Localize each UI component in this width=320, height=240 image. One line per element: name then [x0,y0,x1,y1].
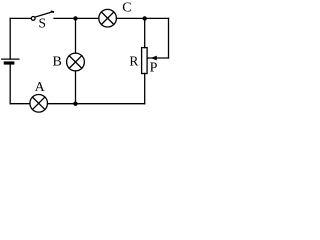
lamp A [30,95,48,113]
wire: bottom junction to bottom-right corner [76,103,145,105]
wire: bottom-left corner to lamp A [10,103,30,105]
node: top junction to lamp B branch [73,16,77,20]
wire: resistor bottom to bottom wire corner [144,74,146,104]
svg-text:S: S [38,16,46,31]
svg-text:C: C [122,1,131,16]
wiper P arrowhead [151,56,157,61]
wire: lamp A to bottom junction [48,103,76,105]
lamp C [99,9,117,27]
switch S contact circle [31,17,35,21]
wire: top-left corner to switch left contact [10,17,31,19]
wire: lamp C to top-right corner [116,17,168,19]
wire: left edge from top-left corner to battery [9,18,11,59]
node: rheostat top junction [143,16,147,20]
wire: junction down to resistor top [144,18,146,47]
wire: right edge down from top-right corner [168,18,170,58]
battery positive plate (long) [2,58,19,60]
wiper P arrow shaft [147,57,168,59]
wire: lamp B bottom down to bottom junction [75,71,77,104]
svg-text:P: P [150,61,158,76]
switch S blade (open) [35,12,53,17]
svg-text:A: A [35,80,46,95]
svg-text:B: B [53,55,62,70]
node: bottom junction of lamp B branch [73,102,77,106]
svg-text:R: R [129,53,138,68]
wire: branch down from top junction to lamp B [75,18,77,53]
battery negative plate (short thick) [4,61,15,64]
lamp B [67,53,85,71]
wire: switch right contact to lamp C [54,17,99,19]
wire: battery to bottom-left corner [9,65,11,104]
resistor R body [142,48,148,74]
